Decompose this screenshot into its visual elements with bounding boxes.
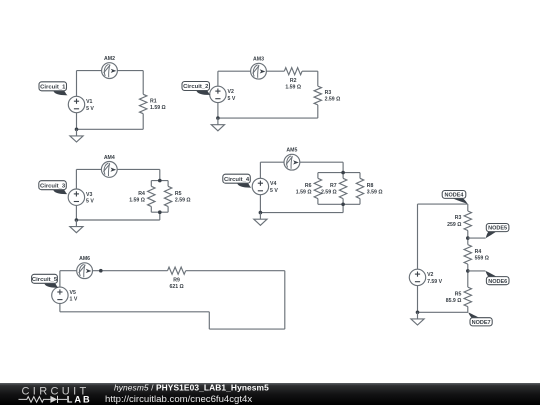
wire [59,304,61,312]
resistor R2 [284,68,302,91]
ground [411,312,424,325]
wire [117,70,143,72]
junction [341,171,345,175]
junction [158,179,162,183]
diode triangle [50,396,57,403]
wire [76,168,101,170]
wire [318,172,360,174]
wire [418,203,468,205]
svg-text:Circuit_5: Circuit_5 [32,277,58,283]
wire [218,117,318,119]
wire [260,161,284,163]
svg-text:R2: R2 [290,78,297,84]
svg-text:R9: R9 [173,278,180,284]
svg-text:Circuit_1: Circuit_1 [40,84,66,90]
voltage source V2 [210,86,236,102]
svg-text:R5: R5 [175,191,182,197]
resistor R7 [321,173,347,205]
svg-text:5 V: 5 V [86,106,94,112]
svg-text:85.9 Ω: 85.9 Ω [446,298,462,304]
wire [77,128,144,130]
wire [217,103,219,118]
svg-text:AM6: AM6 [79,256,90,262]
junction [341,203,345,207]
wire [60,311,209,313]
resistor R5 [446,271,472,312]
ground [70,220,83,233]
junction [466,269,470,273]
wire [76,219,159,221]
footer bar [0,383,540,405]
svg-text:V4: V4 [270,181,276,187]
svg-text:V5: V5 [70,290,76,296]
svg-text:2.59 Ω: 2.59 Ω [321,190,337,196]
node label Circuit_3 [39,181,68,194]
ammeter AM5 [284,148,300,171]
ammeter AM6 [77,256,93,279]
voltage source V5 [52,287,78,303]
svg-text:R7: R7 [330,183,337,189]
junction [75,128,79,132]
svg-text:R6: R6 [305,183,312,189]
svg-text:1.59 Ω: 1.59 Ω [129,198,145,204]
node label Circuit_1 [39,82,68,95]
wire [468,270,486,272]
node label Circuit_5 [32,274,59,287]
ground [211,118,224,131]
wire [266,70,284,72]
voltage source V1 [68,96,94,112]
svg-text:NODE4: NODE4 [445,193,465,199]
resistor R6 [296,173,322,205]
wire [60,270,77,272]
ammeter AM3 [251,57,267,80]
wire [93,270,168,272]
svg-text:3.59 Ω: 3.59 Ω [367,190,383,196]
svg-text:R3: R3 [455,215,462,221]
wire [209,328,284,330]
ground [254,213,267,226]
wire [342,204,344,212]
voltage source V4 [252,178,278,194]
node label NODE4 [442,191,467,205]
wire [260,212,343,214]
svg-text:5 V: 5 V [270,188,278,194]
wire [217,71,219,86]
wire [468,237,486,239]
junction [158,210,162,214]
wire [75,205,77,220]
wire [208,312,210,329]
svg-text:http://circuitlab.com/cnec6fu4: http://circuitlab.com/cnec6fu4cgt4x [105,394,252,405]
resistor R9 [168,267,186,290]
svg-text:2.59 Ω: 2.59 Ω [325,97,341,103]
svg-text:R1: R1 [150,99,157,105]
svg-text:AM3: AM3 [253,57,264,63]
svg-text:V2: V2 [228,89,234,95]
svg-text:5 V: 5 V [228,96,236,102]
svg-text:V2: V2 [427,272,433,278]
resistor R1 [140,71,166,130]
svg-text:7.59 V: 7.59 V [427,279,443,285]
svg-text:1.59 Ω: 1.59 Ω [150,105,166,111]
voltage source V3 [68,189,94,205]
wire [318,203,360,205]
svg-text:AM5: AM5 [286,148,297,154]
svg-text:R4: R4 [138,191,145,197]
svg-text:V1: V1 [86,99,92,105]
svg-text:621 Ω: 621 Ω [169,284,183,290]
svg-text:R4: R4 [475,249,482,255]
wire [300,161,343,163]
resistor R8 [356,173,382,205]
svg-text:259 Ω: 259 Ω [447,222,461,228]
wire [76,71,78,97]
svg-text:5 V: 5 V [86,199,94,205]
ground [70,129,83,142]
wire [117,168,160,170]
junction [466,236,470,240]
wire [259,195,261,213]
svg-text:Circuit_4: Circuit_4 [224,177,250,183]
wire [302,70,318,72]
svg-text:hynesm5 / PHYS1E03_LAB1_Hynesm: hynesm5 / PHYS1E03_LAB1_Hynesm5 [114,383,269,393]
wire [218,70,251,72]
node label NODE6 [486,271,510,285]
wire [151,180,168,182]
wire [77,70,102,72]
svg-text:1 V: 1 V [70,297,78,303]
svg-text:NODE5: NODE5 [488,226,507,232]
resistor R3 [314,71,340,118]
resistor R3 [447,204,471,238]
svg-text:559 Ω: 559 Ω [475,256,489,262]
junction [216,116,220,120]
svg-text:AM2: AM2 [104,56,115,62]
resistor R4 [129,181,155,213]
resistor R5 [164,181,190,213]
svg-text:R8: R8 [367,183,374,189]
wire [259,162,261,178]
svg-text:1.59 Ω: 1.59 Ω [285,85,301,91]
svg-text:R3: R3 [325,90,332,96]
node label Circuit_2 [182,82,211,95]
svg-text:NODE7: NODE7 [472,320,491,326]
wire [159,212,161,220]
wire [59,271,61,288]
node label NODE7 [468,312,492,326]
ammeter AM2 [102,56,118,79]
wire [151,211,168,213]
svg-text:Circuit_3: Circuit_3 [40,183,66,189]
svg-text:NODE6: NODE6 [488,279,507,285]
svg-text:2.59 Ω: 2.59 Ω [175,198,191,204]
node label NODE5 [486,224,509,239]
wire [417,286,419,313]
wire [418,311,469,313]
svg-text:AM4: AM4 [104,155,115,161]
ammeter AM4 [101,155,117,178]
svg-text:V3: V3 [86,192,92,198]
svg-text:LAB: LAB [67,395,92,405]
wire [75,169,77,189]
wire [186,270,285,272]
CircuitLab logo glyph (wire-resistor-diode) [19,396,68,403]
junction [416,311,420,315]
wire [342,162,344,172]
voltage source V2 [409,269,442,285]
junction [75,218,79,222]
wire [159,169,161,180]
svg-text:R5: R5 [455,291,462,297]
junction [99,269,103,273]
svg-text:1.59 Ω: 1.59 Ω [296,190,312,196]
junction [259,211,263,215]
wire [284,271,286,329]
resistor R4 [464,238,489,271]
wire [76,113,78,130]
svg-text:Circuit_2: Circuit_2 [183,84,209,90]
wire [417,204,419,269]
node label Circuit_4 [223,174,252,187]
